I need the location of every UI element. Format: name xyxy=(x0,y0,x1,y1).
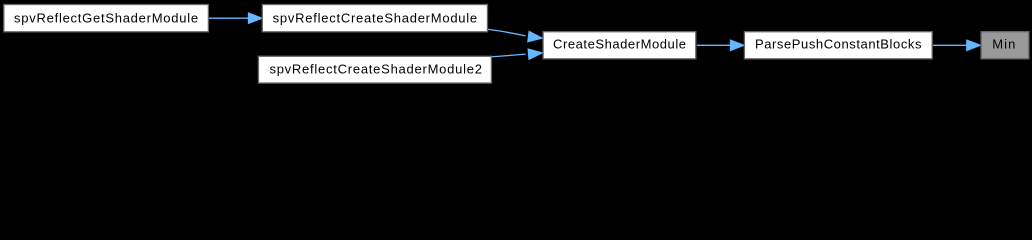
node spvReflectCreateShaderModule xyxy=(262,5,487,32)
svg-text:CreateShaderModule: CreateShaderModule xyxy=(553,37,686,52)
node spvReflectGetShaderModule xyxy=(4,5,209,32)
node Min (highlighted current function) xyxy=(981,32,1029,59)
svg-text:spvReflectCreateShaderModule2: spvReflectCreateShaderModule2 xyxy=(269,62,482,77)
svg-text:Min: Min xyxy=(992,37,1015,52)
arrowhead into CreateShaderModule upper xyxy=(528,32,542,42)
arrowhead into CreateShaderModule lower xyxy=(528,49,542,59)
wire edge ParsePushConstantBlocks to Min xyxy=(933,40,980,50)
svg-text:ParsePushConstantBlocks: ParsePushConstantBlocks xyxy=(755,37,922,52)
arrowhead into ParsePushConstantBlocks xyxy=(731,40,744,50)
arrowhead into spvReflectCreateShaderModule xyxy=(249,13,262,23)
node CreateShaderModule xyxy=(543,32,696,59)
wire edge spvReflectCreateShaderModule2 to CreateShaderModule xyxy=(492,49,542,59)
node ParsePushConstantBlocks xyxy=(744,32,932,59)
arrowhead into Min xyxy=(967,40,980,50)
svg-text:spvReflectCreateShaderModule: spvReflectCreateShaderModule xyxy=(273,10,478,25)
wire edge spvReflectCreateShaderModule to CreateShaderModule xyxy=(488,29,542,41)
wire edge spvReflectGetShaderModule to spvReflectCreateShaderModule xyxy=(209,13,262,23)
svg-text:spvReflectGetShaderModule: spvReflectGetShaderModule xyxy=(14,10,198,25)
node spvReflectCreateShaderModule2 xyxy=(258,56,491,83)
wire edge CreateShaderModule to ParsePushConstantBlocks xyxy=(697,40,744,50)
